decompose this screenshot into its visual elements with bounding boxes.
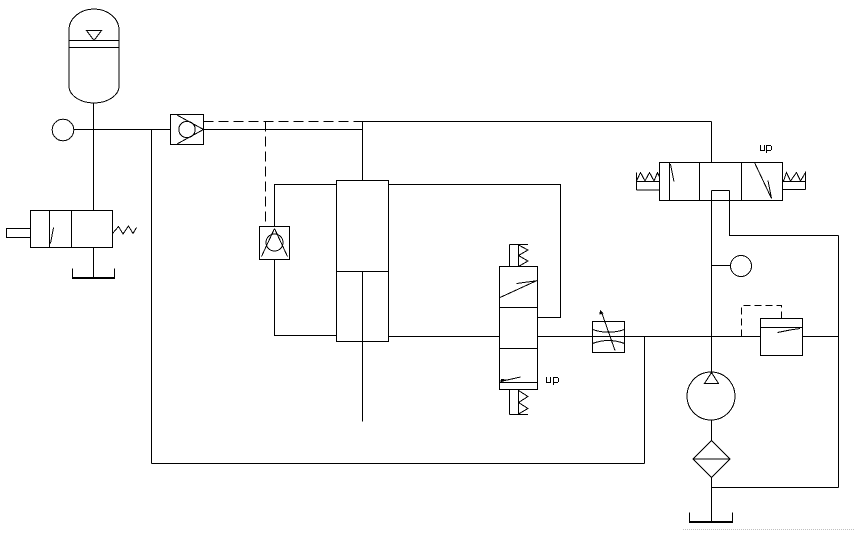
- wire gauge to check valve: [74, 129, 171, 131]
- check valve: [171, 115, 204, 145]
- push rod: [7, 229, 31, 238]
- wire valve output to relief line: [538, 336, 761, 338]
- relief valve: [761, 319, 803, 356]
- wire cylinder top-right to valve: [389, 185, 561, 318]
- pilot operated check valve: [260, 227, 290, 260]
- label up solenoid valve: [760, 145, 772, 153]
- pilot line dashed horizontal: [204, 121, 363, 123]
- wire check valve output: [204, 129, 363, 131]
- wire pump to filter: [711, 420, 713, 441]
- cylinder: [337, 181, 389, 342]
- wire drop to cylinder top: [362, 122, 364, 181]
- wire right vertical: [838, 236, 840, 488]
- wire hand valve to tank: [93, 248, 95, 279]
- spring left of solenoid valve: [637, 173, 660, 191]
- wire bottom right horizontal: [712, 487, 839, 489]
- pump: [687, 372, 735, 420]
- solenoid directional valve top right: [660, 163, 783, 201]
- wire cylinder top-left link: [275, 185, 337, 227]
- wire top main line: [363, 121, 712, 123]
- spring top of center valve: [510, 245, 529, 267]
- spring right of hand valve: [113, 226, 137, 234]
- cylinder rod: [362, 272, 364, 422]
- label up center valve: [546, 377, 559, 385]
- wire pilot check bottom link: [275, 260, 337, 336]
- wire loop right riser: [644, 337, 646, 464]
- wire cylinder bottom-right to valve: [389, 336, 500, 338]
- hand valve bottom left: [31, 211, 113, 248]
- wire loop bottom horizontal: [152, 463, 645, 465]
- wire valve port A to pump: [711, 201, 713, 373]
- directional valve center: [500, 267, 538, 390]
- filter: [693, 441, 730, 478]
- relief valve pilot dashed: [742, 306, 782, 337]
- wire relief output right: [803, 336, 839, 338]
- accumulator: [69, 9, 119, 103]
- wire valve port B right: [730, 201, 839, 236]
- faint page edge dotted: [683, 529, 854, 531]
- spring right of solenoid valve: [783, 173, 806, 190]
- wire accumulator drop to valve: [93, 103, 95, 211]
- tank left: [72, 269, 115, 279]
- tank right: [689, 513, 733, 523]
- wire loop left vertical: [151, 130, 153, 464]
- spring bottom of center valve: [510, 390, 529, 415]
- wire drop to solenoid valve: [711, 122, 713, 163]
- pilot line dashed drop to pilot check: [265, 122, 267, 227]
- wire gauge right link: [712, 265, 731, 267]
- pressure gauge right: [731, 256, 752, 277]
- throttle valve: [593, 310, 625, 353]
- pressure gauge left: [52, 119, 74, 141]
- wire filter to tank: [711, 478, 713, 523]
